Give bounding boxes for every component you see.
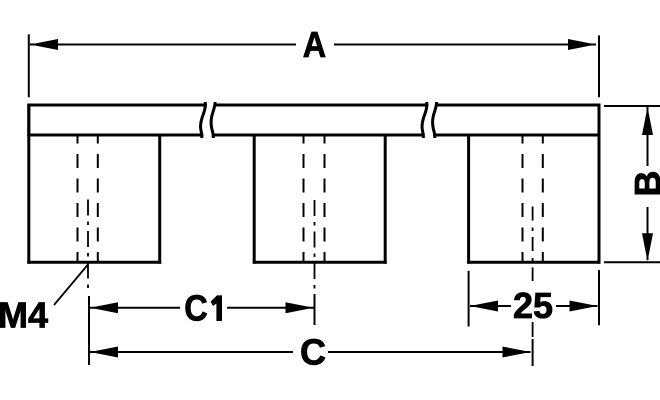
dimension B line [647, 107, 649, 260]
dimension 25 label [513, 285, 553, 326]
dimension C1 line [90, 307, 314, 309]
hole hidden lines block 3 [523, 137, 543, 262]
hole hidden lines block 2 [304, 137, 325, 262]
dimension 25 line [470, 305, 598, 307]
extension line hole 3 center (for C) [532, 339, 534, 366]
dimension A extension line right [598, 35, 600, 97]
dimension 25 extension line right [598, 270, 600, 325]
centerline block 1 hole [87, 200, 89, 292]
dimension B extension tick bottom [604, 261, 660, 263]
rail segment 3 outline with break cut [433, 104, 599, 137]
hole hidden lines block 1 [78, 137, 98, 262]
dimension B arrowhead down [642, 233, 653, 261]
centerline block 2 hole [314, 200, 316, 291]
dimension 25 arrowhead left [470, 301, 498, 312]
dimension A extension line left [28, 34, 30, 97]
svg-text:C: C [300, 331, 326, 372]
dimension 25 arrowhead right [570, 301, 598, 312]
M4 leader line [54, 265, 88, 306]
dimension B label [627, 171, 660, 197]
dimension A line [30, 44, 596, 46]
block 2 (middle foot) [254, 135, 385, 262]
dimension A label [303, 24, 326, 65]
svg-text:A: A [303, 24, 326, 65]
dimension C arrowhead right [503, 347, 531, 358]
dimension B arrowhead up [642, 107, 653, 135]
rail segment 2 outline with break cuts [211, 104, 427, 137]
M4 thread label [0, 295, 48, 336]
extension line hole 2 center (for C1) [314, 294, 316, 325]
extension line hole 1 center (for C1 and C) [88, 296, 90, 365]
svg-text:M4: M4 [0, 295, 48, 336]
dimension C1 arrowhead right [286, 302, 314, 313]
dimension A arrowhead right [568, 39, 596, 50]
block 3 (right foot) [469, 105, 599, 262]
block 1 (left foot) [29, 105, 160, 262]
centerline block 3 hole [532, 207, 534, 342]
svg-text:25: 25 [513, 285, 553, 326]
dimension C1 label [184, 287, 222, 328]
dimension 25 extension line left [468, 271, 470, 327]
dimension C line [90, 351, 531, 353]
dimension A arrowhead left [30, 39, 58, 50]
rail segment 1 outline with break cut [29, 104, 206, 137]
svg-text:B: B [627, 171, 660, 197]
dimension C1 arrowhead left [90, 302, 118, 313]
dimension B extension tick top [604, 105, 660, 107]
svg-text:C: C [184, 287, 208, 328]
dimension C label [300, 331, 326, 372]
dimension C arrowhead left [90, 347, 118, 358]
